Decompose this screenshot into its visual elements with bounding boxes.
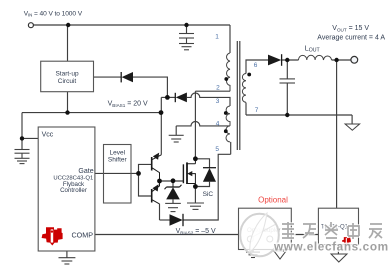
transistor Q2 driver lower bbox=[152, 181, 160, 204]
wire primary top lead bbox=[229, 25, 231, 53]
ground triangle optocoupler right bbox=[274, 251, 286, 259]
capacitor output filter bbox=[280, 79, 296, 83]
svg-text:COMP: COMP bbox=[71, 230, 93, 239]
wire driver output node to gate bbox=[160, 180, 184, 182]
wire opto triangle stem bbox=[279, 250, 281, 252]
svg-text:VIN = 40 V to 1000 V: VIN = 40 V to 1000 V bbox=[24, 10, 83, 17]
wire return ground lead bbox=[351, 115, 353, 124]
wire controller ground stem bbox=[66, 251, 68, 258]
wire vbias1 rail bbox=[22, 112, 161, 114]
wire pin2 drain vertical bbox=[194, 91, 196, 159]
wire vcc pin bbox=[22, 137, 38, 139]
wire diode2 to pin3 with hop bbox=[187, 93, 230, 106]
TI logo controller bbox=[42, 227, 63, 245]
transformer T1 core bbox=[237, 41, 240, 150]
svg-text:www.elecfans.com: www.elecfans.com bbox=[273, 240, 389, 254]
capacitor vcc bbox=[15, 150, 30, 159]
wire startup bottom bbox=[67, 92, 69, 113]
diode D4 antiparallel SiC bbox=[203, 168, 216, 182]
wire node to diode2 bbox=[161, 96, 175, 98]
svg-text:Level: Level bbox=[110, 149, 126, 156]
optocoupler symbol bbox=[247, 224, 276, 242]
wire zener to ground bbox=[172, 199, 174, 203]
transformer T1 aux winding 4-5 bbox=[226, 126, 230, 142]
transformer T1 aux winding 3-4 bbox=[226, 106, 230, 126]
wire return rail bbox=[246, 114, 352, 116]
svg-text:Average current = 4 A: Average current = 4 A bbox=[317, 34, 385, 41]
inductor LOUT bbox=[299, 55, 332, 60]
svg-text:6: 6 bbox=[254, 62, 258, 69]
transformer T1 secondary winding 6-7 bbox=[242, 74, 246, 103]
wire diode out to inductor bbox=[282, 59, 299, 61]
wire vbias1 up-branch bbox=[160, 97, 162, 112]
wire opto to tlv bbox=[291, 234, 318, 236]
wire comp bbox=[95, 234, 239, 236]
ground input filter bbox=[179, 44, 194, 50]
svg-text:SiC: SiC bbox=[203, 191, 214, 198]
wire pin4 ground lead bbox=[175, 126, 177, 135]
ground vcc cap bbox=[15, 158, 30, 163]
wire inductor to terminal bbox=[332, 59, 351, 61]
wire startup diode bbox=[94, 76, 122, 78]
wire gate from controller bbox=[95, 172, 139, 174]
wire secondary top lead bbox=[246, 60, 268, 74]
wire pin2 horizontal bbox=[195, 90, 230, 92]
box tlv431 bbox=[318, 208, 358, 244]
watermark chinese text bbox=[282, 222, 382, 239]
wire pin4 with hop bbox=[176, 122, 230, 126]
ground zener bbox=[165, 203, 181, 211]
phase dots bbox=[224, 73, 251, 134]
diode D1 startup bbox=[121, 72, 133, 82]
terminal output bbox=[351, 56, 358, 63]
ground triangle output return bbox=[345, 124, 360, 130]
wire winding5 lead bbox=[230, 142, 232, 154]
wire base split lower bbox=[139, 173, 152, 196]
wire vout sense bbox=[336, 60, 338, 208]
box optocoupler bbox=[239, 208, 292, 249]
transformer T1 primary winding 1-2 bbox=[227, 53, 230, 91]
wire zener stem bbox=[172, 181, 174, 187]
wire output cap bottom bbox=[286, 83, 288, 115]
svg-text:Circuit: Circuit bbox=[58, 78, 77, 85]
svg-text:2: 2 bbox=[216, 85, 220, 92]
ground optocoupler bbox=[246, 252, 260, 257]
svg-text:5: 5 bbox=[215, 146, 219, 153]
transistor Q1 driver upper bbox=[152, 153, 162, 181]
svg-text:Start-up: Start-up bbox=[55, 71, 79, 78]
watermark circle logo bbox=[240, 213, 279, 256]
svg-text:Shifter: Shifter bbox=[108, 157, 128, 164]
svg-text:Vcc: Vcc bbox=[42, 131, 54, 138]
wire vbias2 rail left bbox=[160, 219, 170, 221]
svg-text:Gate: Gate bbox=[78, 168, 93, 175]
wire vbias2 rail right bbox=[183, 154, 231, 220]
wire tlv triangle stem bbox=[337, 245, 339, 254]
box controller UCC28C43-Q1 bbox=[38, 127, 95, 251]
ground pin4 bbox=[169, 135, 184, 142]
wire secondary bottom lead bbox=[245, 103, 247, 116]
wire vbias1 to driver emitter bbox=[160, 113, 162, 155]
ground source bbox=[187, 203, 204, 209]
diode D2 bias bbox=[175, 93, 187, 103]
wire input cap lead bbox=[186, 25, 188, 34]
svg-text:4: 4 bbox=[216, 121, 220, 128]
capacitor input filter bbox=[179, 34, 194, 44]
terminal input bbox=[28, 23, 33, 28]
wire output cap top bbox=[286, 60, 288, 79]
diode D6 vbias2 bbox=[170, 214, 184, 226]
wire source ground lead bbox=[194, 187, 196, 204]
svg-text:7: 7 bbox=[255, 107, 259, 114]
svg-text:Optional: Optional bbox=[258, 196, 288, 205]
wire drain to diode bbox=[195, 159, 209, 168]
wire source to diode bbox=[195, 182, 209, 187]
wire startup top bbox=[67, 25, 69, 61]
svg-text:1: 1 bbox=[215, 34, 219, 41]
wire input rail bbox=[33, 24, 230, 26]
TI logo tlv431 bbox=[342, 237, 351, 245]
box startup circuit bbox=[41, 61, 94, 91]
transistor M1 SiC MOSFET bbox=[183, 159, 195, 187]
wire diode1 to corner bbox=[133, 77, 167, 97]
wire driver low collector to rail bbox=[159, 204, 161, 220]
ground triangle tlv431 bbox=[331, 254, 347, 262]
wire opto ground stem bbox=[252, 250, 254, 253]
zener D5 gate clamp bbox=[165, 185, 182, 200]
box level shifter bbox=[104, 145, 132, 204]
svg-text:3: 3 bbox=[216, 98, 220, 105]
svg-text:Controller: Controller bbox=[60, 187, 87, 194]
diode D3 output rectifier bbox=[268, 54, 282, 66]
wire vbias1 corner to vcc bbox=[21, 113, 23, 150]
wire base split upper bbox=[139, 164, 152, 173]
ground controller bbox=[59, 258, 76, 264]
